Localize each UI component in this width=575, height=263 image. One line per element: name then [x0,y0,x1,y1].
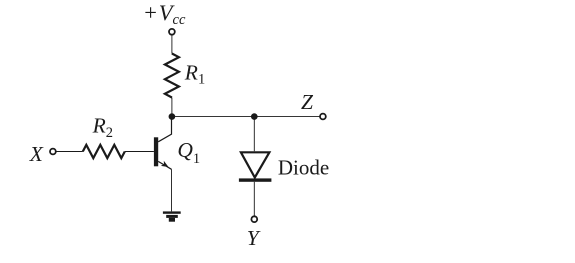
wire emitter to ground [171,169,173,211]
transistor Q1 [154,117,172,169]
wire node to Z [172,116,320,118]
terminal +Vcc [169,29,175,35]
terminal Z [320,114,326,120]
wire R2 to base [125,151,154,153]
diode D1 [239,152,272,181]
resistor R2 [83,145,125,158]
wire R1 to node [171,98,173,117]
svg-text:Diode: Diode [278,156,329,180]
node diode junction [251,113,258,120]
terminal Y [251,216,257,222]
wire node to diode [253,117,255,152]
wire diode to Y [253,182,255,217]
node collector junction [169,113,176,120]
svg-text:Y: Y [247,226,261,250]
svg-text:Z: Z [301,90,314,114]
resistor R1 [165,54,179,98]
svg-text:X: X [29,142,44,166]
terminal X [50,149,56,155]
wire X to R2 [56,151,83,153]
ground [163,211,181,221]
wire Vcc to R1 [171,35,173,54]
